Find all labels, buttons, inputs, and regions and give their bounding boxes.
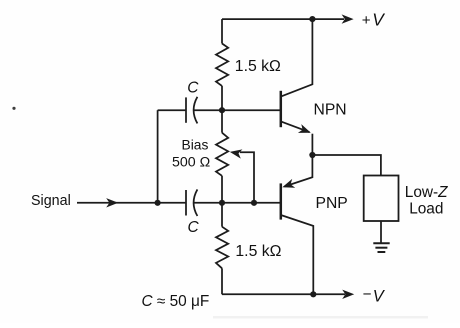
svg-text:Low-Z: Low-Z xyxy=(405,184,448,201)
svg-text:C: C xyxy=(188,219,200,236)
svg-text:1.5 kΩ: 1.5 kΩ xyxy=(235,243,281,260)
svg-text:C ≈ 50 μF: C ≈ 50 μF xyxy=(142,293,210,310)
svg-text:1.5 kΩ: 1.5 kΩ xyxy=(235,58,281,75)
svg-text:Load: Load xyxy=(409,201,443,218)
svg-text:NPN: NPN xyxy=(314,101,347,118)
svg-text:+: + xyxy=(362,12,371,29)
svg-text:500 Ω: 500 Ω xyxy=(172,154,210,170)
svg-text:C: C xyxy=(187,79,199,96)
svg-text:Bias: Bias xyxy=(182,138,209,153)
svg-text:V: V xyxy=(372,10,385,30)
svg-text:PNP: PNP xyxy=(316,195,348,212)
svg-text:−: − xyxy=(363,286,372,303)
svg-text:Signal: Signal xyxy=(31,193,71,209)
